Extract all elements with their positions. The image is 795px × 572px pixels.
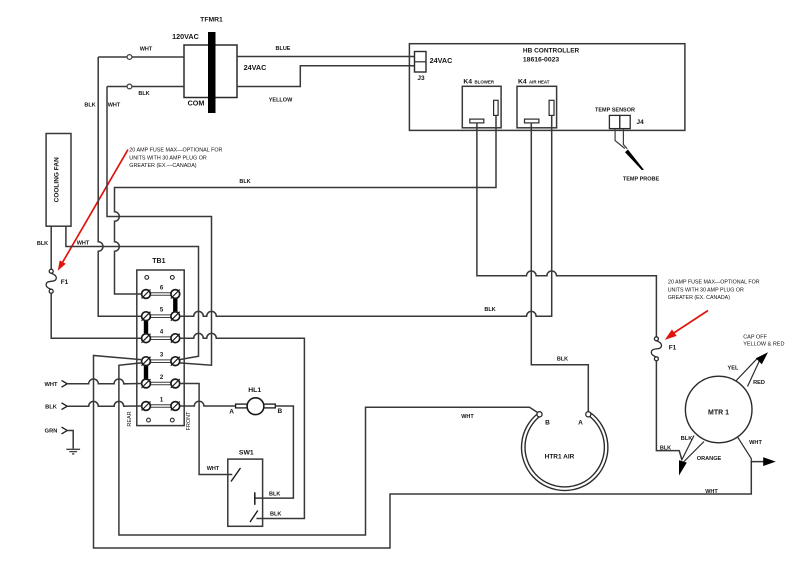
motor MTR1 circle	[685, 376, 752, 443]
K4 BLOWER right pin pill	[494, 100, 499, 115]
svg-text:A: A	[578, 420, 583, 427]
svg-text:A: A	[229, 409, 234, 416]
motor YEL lead	[736, 358, 758, 381]
SW1 lower contact blade	[250, 511, 258, 523]
svg-text:120VAC: 120VAC	[172, 32, 199, 41]
wire K4 AIR HEAT pin to HTR1 A	[531, 123, 588, 412]
svg-text:BLUE: BLUE	[276, 46, 291, 52]
svg-text:HB CONTROLLER: HB CONTROLLER	[523, 48, 580, 55]
terminal block TB1 box	[137, 270, 184, 426]
svg-text:WHT: WHT	[77, 241, 90, 247]
TB1 terminal numbers	[160, 286, 164, 404]
svg-text:COM: COM	[188, 99, 205, 108]
svg-text:YELLOW: YELLOW	[269, 98, 293, 104]
svg-text:GREATER (EX.—CANADA): GREATER (EX.—CANADA)	[129, 163, 196, 169]
svg-text:BLK: BLK	[84, 103, 95, 109]
input WHT chevron	[62, 380, 68, 387]
svg-text:AIR HEAT: AIR HEAT	[529, 80, 550, 85]
svg-text:CAP OFF: CAP OFF	[743, 335, 767, 341]
motor BLK lead	[682, 436, 695, 461]
note text 20 AMP FUSE (right)	[668, 280, 760, 302]
fuse F1 (left)	[46, 269, 56, 293]
wire TB1 row 5 right to K4 AIR HEAT pin	[180, 115, 552, 316]
svg-text:YEL: YEL	[728, 366, 739, 372]
svg-text:RED: RED	[753, 380, 765, 386]
cooling fan box	[46, 134, 71, 227]
svg-text:WHT: WHT	[461, 414, 474, 420]
svg-text:GRN: GRN	[45, 429, 58, 435]
svg-text:YELLOW & RED: YELLOW & RED	[743, 342, 784, 348]
TB1 mounting holes	[145, 276, 174, 423]
svg-text:BLK: BLK	[37, 241, 48, 247]
svg-text:BLK: BLK	[557, 356, 568, 362]
svg-text:F1: F1	[61, 279, 69, 286]
svg-text:BLK: BLK	[484, 307, 495, 313]
svg-text:20 AMP FUSE MAX—OPTIONAL FOR: 20 AMP FUSE MAX—OPTIONAL FOR	[668, 280, 760, 286]
label K4 BLOWER	[463, 79, 494, 86]
wire K4 BLOWER bottom pin to fuse F1 (right)	[477, 123, 657, 337]
TB1 jumper bar 6R-5R	[173, 298, 177, 314]
svg-text:BLK: BLK	[138, 91, 149, 97]
wire net V1 transformer WHT to TB1 terminal 5 left	[98, 57, 142, 316]
black arrow (WHT junction, pointing right)	[763, 457, 776, 466]
svg-text:BLK: BLK	[45, 404, 58, 410]
motor WHT lead	[738, 437, 752, 462]
indicator light HL1	[180, 398, 294, 498]
HTR1 terminal A	[586, 412, 591, 417]
svg-text:BLK: BLK	[239, 179, 250, 185]
svg-text:HL1: HL1	[248, 387, 261, 394]
wire fuse F1 (right) to motor junction	[656, 361, 681, 460]
svg-text:GREATER (EX. CANADA): GREATER (EX. CANADA)	[668, 295, 731, 301]
svg-text:HTR1 AIR: HTR1 AIR	[545, 454, 575, 461]
svg-text:BLOWER: BLOWER	[475, 80, 495, 85]
svg-text:20 AMP FUSE MAX—OPTIONAL FOR: 20 AMP FUSE MAX—OPTIONAL FOR	[129, 148, 222, 154]
TB1 screw terminals row 4	[142, 334, 180, 343]
wire BLUE transformer to J3	[237, 56, 415, 58]
svg-text:TB1: TB1	[152, 258, 165, 265]
svg-text:WHT: WHT	[140, 47, 153, 53]
wire TB1 row 3 left to motor WHT (bottom outer run)	[94, 356, 764, 549]
connector J4	[609, 115, 630, 128]
svg-text:TFMR1: TFMR1	[200, 17, 223, 24]
K4 AIR HEAT right pin pill	[549, 100, 554, 115]
svg-text:18616-0023: 18616-0023	[523, 57, 560, 64]
connector J3	[415, 52, 427, 73]
svg-text:UNITS WITH 30 AMP PLUG OR: UNITS WITH 30 AMP PLUG OR	[668, 288, 744, 294]
TB1 screw terminals row 2	[142, 379, 180, 388]
svg-text:MTR 1: MTR 1	[708, 410, 729, 417]
input GRN chevron	[62, 427, 68, 434]
SW1 middle contact	[254, 492, 256, 505]
svg-text:TEMP SENSOR: TEMP SENSOR	[595, 108, 635, 114]
wire fuse F1 to TB1 terminal 4 left	[51, 293, 142, 338]
svg-text:K4: K4	[463, 79, 472, 86]
svg-text:WHT: WHT	[108, 103, 121, 109]
svg-text:J3: J3	[417, 75, 425, 82]
svg-text:24VAC: 24VAC	[430, 56, 453, 65]
HTR1 terminal B	[537, 412, 542, 417]
svg-text:WHT: WHT	[45, 382, 58, 388]
red arrow to fuse F1 (right)	[665, 311, 708, 340]
relay K4 AIR HEAT box	[517, 86, 557, 128]
transformer TFMR1 core bar	[208, 32, 216, 113]
fuse F1 (right)	[651, 337, 661, 361]
temp probe wires	[615, 129, 627, 149]
svg-text:F1: F1	[669, 345, 677, 352]
wire fan WHT down and right to node	[66, 226, 199, 359]
wire WHT into transformer 120VAC	[98, 55, 184, 60]
heater HTR1 AIR ring	[522, 413, 608, 491]
wire TB1 row 3 left to HTR1 B (inner run)	[119, 363, 538, 535]
TB1 screw terminals row 6	[142, 290, 180, 299]
svg-text:COOLING FAN: COOLING FAN	[54, 157, 61, 202]
wire TB1 row 4 right to SW1 lower contact	[180, 333, 305, 518]
svg-text:24VAC: 24VAC	[244, 63, 267, 72]
switch SW1 box	[228, 459, 263, 526]
svg-text:FRONT: FRONT	[186, 411, 192, 431]
label CAP OFF YELLOW &amp; RED	[743, 335, 784, 348]
temp probe body	[625, 150, 644, 171]
TB1 jumper bar 5L-4L	[144, 320, 148, 336]
svg-text:REAR: REAR	[127, 411, 133, 426]
wire BLK into transformer COM	[107, 84, 184, 89]
svg-text:J4: J4	[637, 119, 645, 126]
motor ORANGE lead	[684, 442, 705, 463]
transformer TFMR1 body	[184, 45, 237, 98]
input BLK chevron	[62, 403, 68, 410]
svg-text:UNITS WITH 30 AMP PLUG OR: UNITS WITH 30 AMP PLUG OR	[129, 155, 207, 161]
svg-text:BLK: BLK	[270, 512, 281, 518]
TB1 screw terminals row 5	[142, 312, 180, 321]
label K4 AIR HEAT	[518, 79, 550, 86]
wire net BLK from K4 BLOWER right pin to TB1 terminal 6 left	[115, 115, 497, 294]
svg-text:B: B	[277, 408, 282, 415]
TB1 screw terminals row 1	[142, 402, 180, 411]
wire WHT input to TB1 row 2 left	[67, 379, 142, 384]
svg-text:TEMP PROBE: TEMP PROBE	[623, 177, 660, 183]
wire BLK input to TB1 row 1 left	[67, 401, 142, 406]
relay K4 BLOWER box	[462, 86, 501, 128]
svg-text:BLK: BLK	[269, 491, 280, 497]
K4 BLOWER bottom pin pill	[470, 119, 484, 123]
K4 AIR HEAT bottom pin pill	[525, 119, 539, 123]
svg-text:SW1: SW1	[239, 450, 254, 457]
TB1 jumper bar 3L-2L	[144, 365, 148, 381]
SW1 switch blade (top)	[231, 468, 241, 482]
wire YELLOW transformer to J3	[237, 66, 415, 87]
HB controller box	[409, 44, 685, 131]
svg-text:K4: K4	[518, 79, 527, 86]
svg-text:ORANGE: ORANGE	[697, 456, 722, 462]
wire TB1 row 2 right to SW1 switch	[180, 384, 233, 475]
svg-text:WHT: WHT	[207, 466, 220, 472]
wire net V2 transformer BLK to TB1 terminal 3 right	[107, 87, 212, 366]
svg-text:WHT: WHT	[705, 489, 718, 495]
svg-text:BLK: BLK	[660, 446, 671, 452]
ground symbol	[66, 449, 80, 454]
cap-off arrow (yellow+red)	[756, 352, 768, 364]
wire GRN to ground	[67, 431, 73, 449]
motor RED lead	[748, 360, 761, 387]
wire fan BLK down to fuse F1	[50, 226, 52, 269]
red arrow to fuse F1 (left)	[58, 150, 128, 271]
TB1 screw terminals row 3	[142, 357, 180, 366]
note text 20 AMP FUSE (left)	[129, 148, 222, 170]
TB1 row links (double lines)	[151, 293, 172, 408]
svg-text:B: B	[545, 420, 550, 427]
svg-text:BLK: BLK	[681, 436, 693, 442]
svg-text:WHT: WHT	[749, 440, 762, 446]
black arrow (BLK/ORANGE junction)	[679, 460, 687, 475]
